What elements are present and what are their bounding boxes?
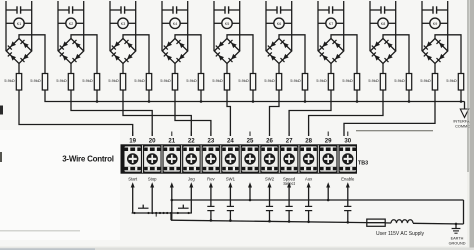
label TB3 (358, 161, 368, 167)
bridge rectifier BR7 (318, 39, 343, 64)
resistor R17 5.9k (432, 74, 437, 91)
arrow to terminal 23 (209, 182, 213, 206)
wire switch bus to L3 (170, 213, 172, 220)
svg-text:User 115V AC Supply: User 115V AC Supply (376, 231, 424, 237)
capacitor C7 (318, 1, 344, 51)
svg-text:5.9kΩ: 5.9kΩ (108, 78, 118, 83)
bridge rectifier BR1 (6, 39, 31, 64)
resistor R7 5.9k (172, 74, 177, 91)
wire bridge BR9 bottom to resistor (434, 64, 436, 74)
svg-text:K9: K9 (433, 22, 437, 26)
svg-text:29: 29 (325, 138, 332, 145)
label R4 value 5.9k&#937; (82, 78, 92, 83)
svg-text:5.9kΩ: 5.9kΩ (420, 78, 430, 83)
bridge rectifier BR3 (110, 39, 135, 64)
wire supply line L3 (171, 220, 464, 224)
svg-text:GROUND: GROUND (449, 241, 466, 245)
wire common rail L1 (171, 199, 464, 202)
svg-text:EARTH: EARTH (451, 237, 464, 241)
resistor R2 5.9k (42, 74, 47, 91)
resistor R18 5.9k (458, 74, 463, 91)
relay coil K9 (422, 18, 448, 28)
wire bridge BR6 top to resistor (279, 35, 305, 74)
svg-text:5.9kΩ: 5.9kΩ (446, 78, 456, 83)
inductor coil (391, 220, 413, 223)
wire R to terminal 20 (71, 90, 152, 136)
svg-text:5.9kΩ: 5.9kΩ (82, 78, 92, 83)
wire switch bus (132, 212, 192, 214)
contact SW terminal 30 (344, 206, 351, 223)
wire stub (155, 213, 157, 217)
resistor R3 5.9k (68, 74, 73, 91)
label R16 value 5.9k&#937; (394, 78, 404, 83)
svg-text:Jog: Jog (188, 176, 195, 181)
terminal ticks 19-30 (133, 132, 348, 137)
label R15 value 5.9k&#937; (368, 78, 378, 83)
svg-text:5.9kΩ: 5.9kΩ (238, 78, 248, 83)
node INTERFACE COMMON (453, 102, 474, 129)
wire bridge BR8 bottom to resistor (382, 64, 384, 74)
capacitor C4 (162, 1, 188, 51)
wire interface common bus (45, 90, 465, 103)
capacitor C5 (214, 1, 240, 51)
contact SW terminal 24 (227, 206, 234, 222)
svg-text:5.9kΩ: 5.9kΩ (134, 78, 144, 83)
label R11 value 5.9k&#937; (264, 78, 274, 83)
svg-text:5.9kΩ: 5.9kΩ (160, 78, 170, 83)
wire R to terminal 22 (123, 90, 191, 136)
wire R to terminal 23 (175, 90, 211, 136)
bridge rectifier BR9 (422, 39, 447, 64)
relay coil K3 (110, 18, 136, 28)
pushbutton Stop (178, 205, 189, 209)
label R1 value 5.9k&#937; (4, 78, 14, 83)
svg-text:Rev: Rev (207, 176, 215, 181)
svg-text:22: 22 (188, 138, 195, 145)
wire bridge BR7 bottom to resistor (330, 64, 332, 74)
wire bridge BR2 top to resistor (71, 35, 97, 74)
relay coil K1 (6, 18, 32, 28)
arrow to terminal 30 (346, 182, 350, 206)
svg-text:3-Wire Control: 3-Wire Control (62, 154, 114, 163)
svg-text:30: 30 (344, 138, 351, 145)
label R14 value 5.9k&#937; (342, 78, 352, 83)
capacitor C9 (422, 1, 448, 51)
label R6 value 5.9k&#937; (134, 78, 144, 83)
arrow to terminal 21 (170, 182, 174, 220)
wire bridge BR1 top to resistor (19, 35, 45, 74)
resistor R15 5.9k (380, 74, 385, 91)
arrow to terminal 26 (268, 182, 272, 206)
svg-text:5.9kΩ: 5.9kΩ (264, 78, 274, 83)
arrow to terminal 22 (189, 182, 193, 213)
resistor R9 5.9k (224, 74, 229, 91)
svg-text:K5: K5 (225, 22, 229, 26)
arrow to terminal 29 (326, 182, 330, 200)
wire bridge BR6 bottom to resistor (278, 64, 280, 74)
wire R to terminal 24 (227, 90, 230, 136)
wire bridge BR3 top to resistor (123, 35, 149, 74)
resistor R6 5.9k (146, 74, 151, 91)
resistor R14 5.9k (354, 74, 359, 91)
relay coil K4 (162, 18, 188, 28)
svg-text:5.9kΩ: 5.9kΩ (4, 78, 14, 83)
svg-text:19: 19 (129, 138, 136, 145)
svg-text:5.9kΩ: 5.9kΩ (290, 78, 300, 83)
svg-text:K8: K8 (381, 22, 385, 26)
relay coil K5 (214, 18, 240, 28)
svg-text:5.9kΩ: 5.9kΩ (342, 78, 352, 83)
wire bridge BR3 bottom to resistor (122, 64, 124, 74)
svg-text:24: 24 (227, 138, 234, 145)
wire ghost line (356, 130, 433, 132)
contact SW terminal 23 (207, 206, 214, 221)
capacitor C6 (266, 1, 292, 51)
label R5 value 5.9k&#937; (108, 78, 118, 83)
svg-text:5.9kΩ: 5.9kΩ (56, 78, 66, 83)
svg-text:27: 27 (286, 138, 293, 145)
svg-text:K6: K6 (277, 22, 281, 26)
svg-text:28: 28 (305, 138, 312, 145)
bridge rectifier BR5 (214, 39, 239, 64)
wire bridge BR5 top to resistor (227, 35, 253, 74)
wire bridge BR7 top to resistor (331, 35, 357, 74)
svg-text:Enable: Enable (341, 176, 355, 181)
svg-text:Aux: Aux (305, 176, 313, 181)
resistor R5 5.9k (120, 74, 125, 91)
svg-text:5.9kΩ: 5.9kΩ (30, 78, 40, 83)
label R3 value 5.9k&#937; (56, 78, 66, 83)
relay coil K6 (266, 18, 292, 28)
wire R to terminal 26 (270, 90, 280, 136)
svg-text:26: 26 (266, 138, 273, 145)
capacitor C8 (370, 1, 396, 51)
label R13 value 5.9k&#937; (316, 78, 326, 83)
svg-text:21: 21 (168, 138, 175, 145)
label R18 value 5.9k&#937; (446, 78, 456, 83)
wire R to terminal 28 (309, 90, 383, 136)
svg-text:Start: Start (128, 176, 138, 181)
wire bridge BR2 bottom to resistor (70, 64, 72, 74)
label 3-Wire Control (62, 154, 114, 163)
svg-text:K4: K4 (173, 22, 177, 26)
relay coil K2 (58, 18, 84, 28)
pushbutton Start (138, 205, 149, 209)
capacitor C2 (58, 1, 84, 51)
bridge rectifier BR2 (58, 39, 83, 64)
wire bridge BR4 top to resistor (175, 35, 201, 74)
wire L1 to L3 right edge (463, 200, 465, 224)
label R8 value 5.9k&#937; (186, 78, 196, 83)
label User 115V AC Supply (376, 231, 424, 237)
svg-text:SW2: SW2 (265, 176, 275, 181)
svg-text:20: 20 (149, 138, 156, 145)
resistor R1 5.9k (16, 74, 21, 91)
label R7 value 5.9k&#937; (160, 78, 170, 83)
label R12 value 5.9k&#937; (290, 78, 300, 83)
bridge rectifier BR8 (370, 39, 395, 64)
contact SW terminal 27 (286, 206, 293, 222)
wire bridge BR5 bottom to resistor (226, 64, 228, 74)
resistor R10 5.9k (250, 74, 255, 91)
svg-text:5.9kΩ: 5.9kΩ (186, 78, 196, 83)
terminal block TB3 (121, 144, 358, 173)
resistor R8 5.9k (198, 74, 203, 91)
capacitor C1 (6, 1, 32, 51)
label R17 value 5.9k&#937; (420, 78, 430, 83)
svg-text:K3: K3 (121, 22, 125, 26)
wire R to terminal 19 (19, 90, 133, 136)
svg-text:25: 25 (247, 138, 254, 145)
wire bridge BR9 top to resistor (435, 35, 461, 74)
earth ground (449, 223, 466, 246)
wire R to terminal 30 (344, 90, 435, 136)
relay coil K8 (370, 18, 396, 28)
svg-text:5.9kΩ: 5.9kΩ (394, 78, 404, 83)
wire R to terminal 27 (289, 90, 331, 136)
arrow to terminal 19 (131, 182, 135, 213)
arrow to terminal 27 (287, 182, 291, 206)
bridge rectifier BR6 (266, 39, 291, 64)
svg-text:Stop: Stop (148, 176, 157, 181)
label R9 value 5.9k&#937; (212, 78, 222, 83)
svg-text:5.9kΩ: 5.9kΩ (368, 78, 378, 83)
svg-text:23: 23 (208, 138, 215, 145)
resistor R13 5.9k (328, 74, 333, 91)
svg-text:SW1: SW1 (226, 176, 236, 181)
terminal labels (128, 176, 355, 186)
terminal numbers 19-30 (129, 138, 351, 145)
capacitor C3 (110, 1, 136, 51)
label R2 value 5.9k&#937; (30, 78, 40, 83)
svg-text:TB3: TB3 (358, 161, 368, 167)
label R10 value 5.9k&#937; (238, 78, 248, 83)
arrow to terminal 24 (228, 182, 232, 206)
contact SW terminal 28 (305, 206, 312, 223)
resistor R4 5.9k (94, 74, 99, 91)
svg-text:K2: K2 (69, 22, 73, 26)
arrow to terminal 28 (307, 182, 311, 206)
resistor R11 5.9k (276, 74, 281, 91)
wire bridge BR1 bottom to resistor (18, 64, 20, 74)
svg-text:5.9kΩ: 5.9kΩ (212, 78, 222, 83)
fuse F1 (367, 219, 385, 226)
svg-text:K7: K7 (329, 22, 333, 26)
wire bridge BR4 bottom to resistor (174, 64, 176, 74)
svg-text:K1: K1 (17, 22, 21, 26)
bridge rectifier BR4 (162, 39, 187, 64)
svg-text:5.9kΩ: 5.9kΩ (316, 78, 326, 83)
resistor R16 5.9k (406, 74, 411, 91)
wire bridge BR8 top to resistor (383, 35, 409, 74)
relay coil K7 (318, 18, 344, 28)
resistor R12 5.9k (302, 74, 307, 91)
arrow to terminal 20 (150, 182, 154, 213)
contact SW terminal 26 (266, 206, 273, 222)
arrow to terminal 25 (248, 182, 252, 200)
